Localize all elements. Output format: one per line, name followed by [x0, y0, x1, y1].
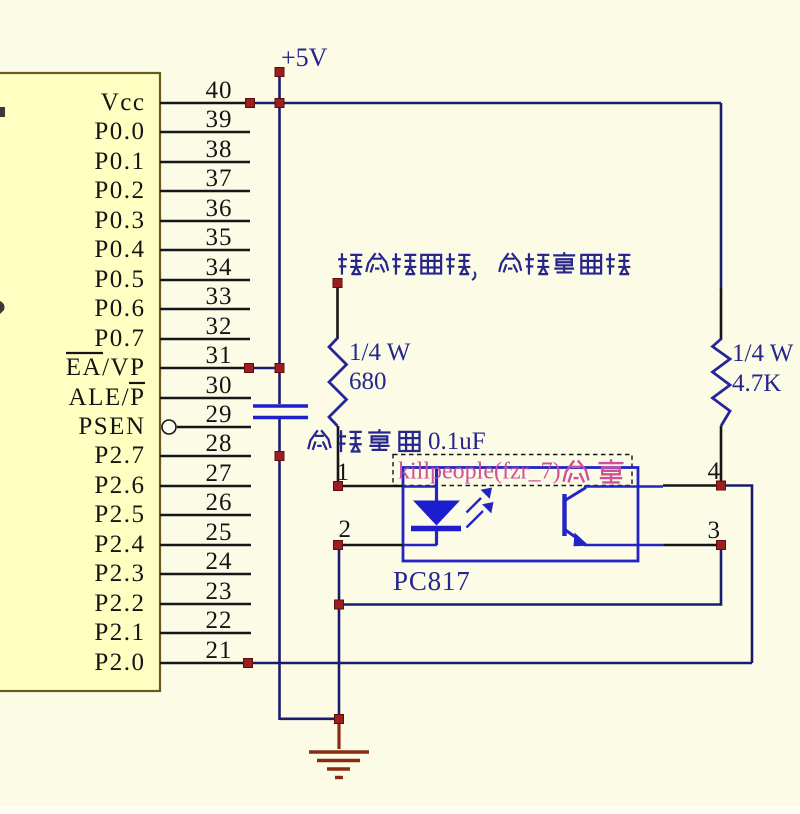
wire: pin4 junction to right rail [721, 486, 752, 664]
PSEN inversion bubble on pin 29 [162, 420, 176, 434]
+5V rail corner down right side [720, 103, 723, 289]
wire: vertical rail x=279.5 from +5V down to capacitor [278, 103, 281, 404]
node signal terminal [333, 279, 342, 288]
wire: pin2 black from junction to box [338, 544, 403, 547]
node mid junction y604 [335, 600, 344, 609]
pin 34 wire [160, 279, 250, 282]
wire: pin2 inside box [403, 544, 437, 546]
node PC817 pin2 [334, 541, 343, 550]
pin 30 wire [160, 397, 251, 400]
pin 37 wire [160, 190, 250, 193]
pin 32 wire [160, 338, 250, 341]
wire: pin40 to +5V rail (navy) [250, 102, 721, 105]
pin 21 wire [160, 662, 248, 665]
svg-text:+5V: +5V [281, 43, 328, 72]
svg-text:P2.0: P2.0 [94, 649, 145, 676]
node P2.0 junction [244, 659, 253, 668]
ground stub [337, 722, 340, 749]
svg-text:2: 2 [339, 516, 352, 543]
text: signal note 轉速訊號線，勿接高壓端 [338, 252, 630, 280]
node EA junction rail [275, 364, 284, 373]
IC pin numbers [206, 77, 233, 664]
signal terminal wire (black) down to R1 [336, 283, 339, 339]
svg-text:P0.4: P0.4 [94, 236, 145, 263]
svg-text:P2.7: P2.7 [94, 442, 145, 469]
node PC817 pin4 [717, 481, 726, 490]
pin 26 wire [160, 514, 251, 517]
svg-text:EA/VP: EA/VP [66, 354, 146, 381]
emitter wire to box edge [584, 544, 664, 547]
LED D1 triangle [413, 501, 460, 526]
svg-text:PSEN: PSEN [78, 413, 145, 440]
phototransistor Q1 base bar [562, 494, 566, 536]
svg-text:39: 39 [206, 106, 233, 133]
text: 1/4 W (R1) [349, 339, 411, 395]
svg-text:38: 38 [206, 136, 233, 163]
text: 1/4 W (R2) [732, 340, 794, 397]
wire: pin1 black from junction to box [338, 485, 403, 488]
svg-text:Vcc: Vcc [101, 89, 146, 116]
emitter diagonal [564, 529, 581, 541]
wire: pin1 inside box to LED anode [403, 485, 437, 487]
wire: EA/VP to vertical rail [249, 367, 280, 370]
svg-text:33: 33 [206, 283, 233, 310]
svg-text:21: 21 [206, 637, 233, 664]
svg-text:22: 22 [206, 607, 233, 634]
svg-text:P2.6: P2.6 [94, 472, 145, 499]
svg-text:P0.3: P0.3 [94, 207, 145, 234]
scan speck left edge 2 [0, 301, 5, 314]
EA overline [66, 352, 103, 354]
pin 23 wire [160, 603, 251, 606]
svg-text:P0.2: P0.2 [94, 177, 145, 204]
optocoupler U2 PC817 body [403, 468, 638, 562]
collector wire to box edge [584, 485, 663, 488]
svg-text:1/4 W: 1/4 W [349, 339, 411, 366]
svg-text:P2.5: P2.5 [94, 501, 145, 528]
svg-text:37: 37 [206, 165, 233, 192]
svg-text:P2.3: P2.3 [94, 560, 145, 587]
svg-text:P0.5: P0.5 [94, 266, 145, 293]
node +5V terminal [275, 68, 284, 77]
svg-text:34: 34 [206, 254, 233, 281]
wire: below capacitor down to bottom corner [278, 419, 281, 720]
ALE/P overline on P [129, 382, 145, 384]
svg-text:29: 29 [206, 401, 233, 428]
pin 29 wire [177, 426, 251, 429]
resistor R2 4.7K zigzag [713, 339, 731, 426]
wire: +5V terminal vertical [278, 72, 281, 103]
scan speck left edge 1 [0, 107, 5, 117]
pin 24 wire [160, 573, 251, 576]
svg-text:P2.1: P2.1 [94, 619, 145, 646]
capacitor C1 0.1uF plates [253, 406, 308, 418]
text: 麥拉電容 0.1uF [308, 429, 419, 452]
svg-text:1/4 W: 1/4 W [732, 340, 794, 367]
wire: pin4 black segment [663, 484, 718, 487]
LED anode vertical [435, 468, 438, 501]
node EA junction left [245, 364, 254, 373]
svg-text:P2.4: P2.4 [94, 531, 145, 558]
svg-text:28: 28 [206, 430, 233, 457]
pin 25 wire [160, 544, 251, 547]
wire: R1 bottom lead to PC817 pin1 junction [337, 426, 340, 486]
svg-text:P0.0: P0.0 [94, 118, 145, 145]
dashed annotation box [393, 455, 632, 486]
svg-text:24: 24 [206, 548, 233, 575]
svg-text:PC817: PC817 [393, 566, 471, 596]
svg-text:35: 35 [206, 224, 233, 251]
emitter arrowhead [574, 533, 590, 547]
svg-text:killpeople(fzr_7): killpeople(fzr_7) [398, 459, 561, 485]
svg-text:680: 680 [349, 368, 387, 395]
pin 39 wire [160, 131, 250, 134]
node PC817 pin3 [717, 541, 726, 550]
pin 38 wire [160, 161, 250, 164]
pin 36 wire [160, 220, 250, 223]
svg-text:P0.7: P0.7 [94, 325, 145, 352]
LED cathode lead down [435, 531, 438, 545]
wire: pin3 junction down and left along y=604 [339, 545, 721, 605]
IC pin lines (black stubs) [160, 103, 251, 663]
svg-text:26: 26 [206, 489, 233, 516]
svg-text:ALE/P: ALE/P [69, 384, 146, 411]
node PC817 pin1 [334, 482, 343, 491]
light arrow 1 [467, 489, 491, 513]
R2 top lead (black) [720, 288, 723, 340]
svg-text:P0.6: P0.6 [94, 295, 145, 322]
wire: pin3 black segment [664, 544, 718, 547]
bottom white strip [0, 806, 800, 814]
svg-text:25: 25 [206, 519, 233, 546]
pin 40 wire [160, 102, 250, 105]
svg-text:P2.2: P2.2 [94, 590, 145, 617]
pin 28 wire [160, 455, 251, 458]
svg-text:32: 32 [206, 313, 233, 340]
IC pin name labels [66, 89, 146, 676]
node ground junction [335, 715, 344, 724]
LED cathode bar [411, 526, 461, 531]
pin 27 wire [160, 485, 251, 488]
svg-text:27: 27 [206, 460, 233, 487]
node rail dot at P2.7 level [275, 452, 284, 461]
wire: bottom corner to ground junction [280, 717, 340, 720]
collector diagonal [564, 488, 586, 502]
svg-text:23: 23 [206, 578, 233, 605]
pin 35 wire [160, 249, 250, 252]
node pin40 junction [246, 99, 255, 108]
svg-text:40: 40 [206, 77, 233, 104]
svg-text:31: 31 [206, 342, 233, 369]
light arrow 2 [467, 504, 493, 528]
svg-text:3: 3 [708, 517, 721, 544]
pin 31 wire [160, 367, 249, 370]
pin 22 wire [160, 632, 251, 635]
wire: P2.0 long horizontal [248, 662, 752, 665]
svg-text:36: 36 [206, 195, 233, 222]
R2 bottom lead (black) to pin4 junction [720, 426, 723, 486]
svg-text:0.1uF: 0.1uF [428, 428, 486, 455]
svg-text:P0.1: P0.1 [94, 148, 145, 175]
svg-text:30: 30 [206, 372, 233, 399]
svg-text:4.7K: 4.7K [732, 370, 781, 397]
resistor R1 680 zigzag [329, 338, 347, 426]
wire: pin2 junction down to ground junction [338, 545, 341, 720]
node rail/pin40 junction [275, 99, 284, 108]
IC U1 (8051 MCU) body [0, 73, 160, 691]
ground symbol [309, 752, 369, 778]
pin 33 wire [160, 308, 250, 311]
